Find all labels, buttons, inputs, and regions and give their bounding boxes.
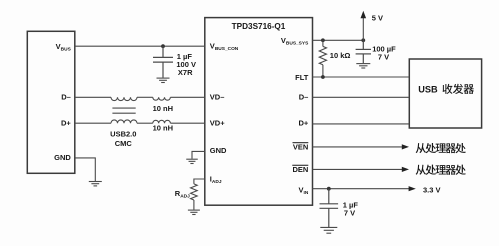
CMC core lines <box>112 108 135 113</box>
wire FLT net <box>313 76 410 78</box>
svg-text:DEN: DEN <box>292 165 308 174</box>
capacitor C2 100uF 7V <box>356 40 371 63</box>
wire VBUS_SYS net <box>313 39 364 41</box>
ground below C2 <box>356 64 370 68</box>
svg-text:CMC: CMC <box>115 139 133 148</box>
5V supply arrow <box>361 11 367 41</box>
junction VBUS_SYS / 10k <box>321 38 325 42</box>
svg-text:GND: GND <box>210 146 227 155</box>
svg-text:D–: D– <box>61 93 71 102</box>
svg-text:10 kΩ: 10 kΩ <box>330 51 351 60</box>
wire GND net (J1) <box>75 158 96 181</box>
wire between CMC and 10nH (D-) <box>137 96 153 98</box>
USB transceiver box <box>409 59 481 128</box>
wire 10nH to VD- pin <box>170 96 204 98</box>
wire D+ net with CMC winding and 10nH inductor <box>75 122 111 124</box>
svg-text:GND: GND <box>54 153 71 162</box>
wire RADJ to ground <box>193 200 195 210</box>
label from processor (DEN) 从处理器处 <box>416 165 466 175</box>
wire VIN net with arrow to 3.3V <box>313 186 416 191</box>
svg-text:D+: D+ <box>299 119 309 128</box>
wire VBUS net (J1 to VBUS_CON) <box>75 45 205 47</box>
svg-text:D+: D+ <box>61 119 71 128</box>
ground symbol (RADJ) <box>188 210 200 214</box>
wire DEN net with arrow to processor <box>313 167 410 172</box>
junction on VBUS at C1 <box>161 44 165 48</box>
svg-text:TPD3S716-Q1: TPD3S716-Q1 <box>232 22 286 31</box>
resistor R1 10 kOhm <box>319 40 326 77</box>
svg-text:USB2.0: USB2.0 <box>110 129 136 138</box>
svg-text:5 V: 5 V <box>372 13 383 22</box>
wire IC GND to ground <box>192 151 205 158</box>
label USB2.0 CMC <box>110 129 136 148</box>
svg-text:VD+: VD+ <box>210 119 225 128</box>
svg-text:10 nH: 10 nH <box>153 123 173 132</box>
svg-text:VD–: VD– <box>210 93 225 102</box>
svg-text:VEN: VEN <box>293 143 308 152</box>
wire VEN net with arrow to processor <box>313 144 410 149</box>
junction FLT / 10k <box>321 75 325 79</box>
label C2 value 100 uF / 7 V <box>372 44 396 61</box>
svg-text:10 nH: 10 nH <box>153 104 173 113</box>
junction VBUS_SYS / C2 <box>361 38 365 42</box>
wire 10nH to VD+ pin <box>170 122 204 124</box>
IC U1 TPD3S716-Q1 box <box>205 18 313 206</box>
label USB transceiver (USB 收发器) <box>418 84 474 95</box>
wire between CMC and 10nH (D+) <box>137 122 153 124</box>
resistor RADJ <box>191 184 198 200</box>
inductor CMC top winding (D-) <box>111 97 137 100</box>
wire D- net (IC to USB transceiver) <box>313 96 410 98</box>
ground below C1 <box>157 78 170 82</box>
svg-text:FLT: FLT <box>295 73 309 82</box>
svg-text:7 V: 7 V <box>378 53 389 62</box>
svg-text:X7R: X7R <box>178 68 193 77</box>
label C1 value 1 uF / 100 V / X7R <box>176 52 196 77</box>
svg-text:3.3 V: 3.3 V <box>423 185 441 194</box>
svg-text:USB: USB <box>418 85 438 95</box>
inductor L3 10nH (D+) <box>153 120 171 123</box>
ground symbol (J1 GND) <box>89 182 102 186</box>
capacitor C3 1uF 7V <box>320 189 339 227</box>
inductor CMC bottom winding (D+) <box>111 120 137 123</box>
inductor L2 10nH (D-) <box>153 97 171 100</box>
USB connector box J1 <box>27 31 75 173</box>
label C3 value 1 uF / 7 V <box>343 200 359 217</box>
label from processor (VEN) 从处理器处 <box>416 143 466 153</box>
wire D- net with CMC winding and 10nH inductor <box>75 96 111 98</box>
wire IADJ to RADJ <box>194 179 205 184</box>
ground symbol (IC GND) <box>186 159 198 163</box>
svg-text:D–: D– <box>299 93 309 102</box>
svg-text:7 V: 7 V <box>344 209 355 218</box>
wire D+ net (IC to USB transceiver) <box>313 123 410 125</box>
ground below C3 <box>320 227 337 233</box>
junction VIN / C3 <box>327 187 331 191</box>
capacitor C1 1uF 100V X7R <box>153 46 173 77</box>
